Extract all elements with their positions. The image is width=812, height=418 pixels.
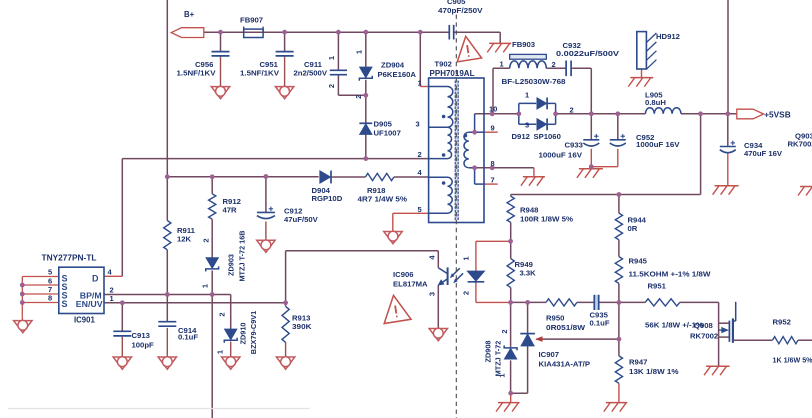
svg-text:390K: 390K — [292, 322, 312, 331]
svg-text:5: 5 — [48, 268, 52, 277]
svg-text:0.0022uF/500V: 0.0022uF/500V — [556, 49, 620, 58]
svg-text:2n2/500V: 2n2/500V — [294, 68, 328, 77]
svg-text:SP1060: SP1060 — [534, 132, 561, 141]
svg-text:1: 1 — [525, 91, 529, 100]
svg-text:10: 10 — [489, 105, 497, 114]
svg-text:R947: R947 — [629, 358, 647, 367]
svg-text:BZX79-C9V1: BZX79-C9V1 — [249, 311, 258, 354]
svg-text:1: 1 — [216, 350, 225, 354]
svg-text:1000uF 16V: 1000uF 16V — [539, 150, 583, 159]
svg-text:5: 5 — [418, 205, 422, 214]
svg-text:R945: R945 — [629, 257, 648, 266]
svg-text:P6KE160A: P6KE160A — [378, 70, 417, 79]
svg-text:D905: D905 — [374, 120, 393, 129]
svg-text:2: 2 — [327, 84, 336, 88]
svg-text:B+: B+ — [184, 10, 195, 19]
svg-text:100R 1/8W 5%: 100R 1/8W 5% — [520, 215, 573, 224]
svg-text:C933: C933 — [565, 140, 583, 149]
svg-text:RK7002: RK7002 — [690, 332, 718, 341]
svg-text:1: 1 — [418, 79, 422, 88]
svg-text:S: S — [62, 299, 68, 309]
svg-text:IC901: IC901 — [74, 316, 95, 325]
svg-text:0.1uF: 0.1uF — [178, 332, 198, 341]
svg-text:ZD903: ZD903 — [227, 254, 236, 276]
svg-text:1: 1 — [500, 60, 504, 69]
svg-text:IC907: IC907 — [539, 350, 560, 359]
svg-text:FB903: FB903 — [512, 40, 535, 49]
svg-text:MTZJ T-72: MTZJ T-72 — [494, 341, 503, 377]
svg-text:2: 2 — [500, 329, 509, 333]
svg-text:ZD904: ZD904 — [381, 61, 405, 70]
svg-text:TNY277PN-TL: TNY277PN-TL — [42, 254, 97, 263]
svg-text:D912: D912 — [512, 132, 530, 141]
svg-text:IC906: IC906 — [393, 270, 414, 279]
svg-text:12K: 12K — [177, 234, 192, 243]
svg-text:3: 3 — [428, 292, 437, 296]
svg-text:PPH7019AL: PPH7019AL — [430, 69, 475, 78]
svg-text:1: 1 — [355, 50, 364, 54]
svg-text:T902: T902 — [435, 60, 452, 69]
svg-text:4R7 1/4W 5%: 4R7 1/4W 5% — [358, 194, 408, 203]
svg-text:1.5NF/1KV: 1.5NF/1KV — [177, 69, 217, 78]
svg-text:470uF 16V: 470uF 16V — [744, 149, 783, 158]
svg-text:2: 2 — [354, 95, 363, 99]
svg-text:1: 1 — [110, 294, 114, 303]
svg-text:1.5NF/1KV: 1.5NF/1KV — [240, 69, 280, 78]
svg-text:2: 2 — [202, 238, 211, 242]
svg-text:R950: R950 — [546, 314, 564, 323]
svg-text:100pF: 100pF — [132, 341, 155, 350]
svg-text:3.3K: 3.3K — [520, 269, 537, 278]
svg-text:RK7002: RK7002 — [788, 140, 812, 149]
svg-text:3: 3 — [416, 120, 420, 129]
svg-text:EL817MA: EL817MA — [393, 280, 428, 289]
svg-text:2: 2 — [570, 106, 574, 115]
svg-text:HD912: HD912 — [656, 32, 680, 41]
svg-text:BF-L25030W-768: BF-L25030W-768 — [502, 77, 567, 86]
svg-text:1K 1/6W 5%: 1K 1/6W 5% — [773, 356, 812, 365]
svg-text:8: 8 — [491, 159, 495, 168]
svg-text:13K 1/8W 1%: 13K 1/8W 1% — [629, 367, 679, 376]
svg-text:2: 2 — [462, 291, 471, 295]
svg-text:0.1uF: 0.1uF — [590, 318, 610, 327]
svg-text:KIA431A-AT/P: KIA431A-AT/P — [539, 360, 591, 369]
svg-text:2: 2 — [418, 150, 422, 159]
svg-text:RGP10D: RGP10D — [312, 194, 343, 203]
svg-text:7: 7 — [491, 176, 495, 185]
svg-text:+5VSB: +5VSB — [764, 109, 791, 119]
svg-text:11.5KOHM +-1% 1/8W: 11.5KOHM +-1% 1/8W — [629, 269, 712, 278]
svg-text:EN/UV: EN/UV — [76, 300, 104, 309]
svg-text:2: 2 — [218, 312, 227, 316]
svg-text:470pF/250V: 470pF/250V — [438, 6, 483, 15]
svg-text:8: 8 — [48, 293, 52, 302]
svg-text:1: 1 — [201, 284, 210, 288]
svg-text:R952: R952 — [773, 318, 791, 327]
svg-text:1: 1 — [327, 56, 336, 60]
svg-text:47uF/50V: 47uF/50V — [284, 215, 319, 224]
svg-text:D: D — [92, 273, 99, 283]
svg-text:C913: C913 — [132, 331, 150, 340]
svg-text:R948: R948 — [520, 205, 539, 214]
svg-text:1: 1 — [462, 256, 471, 260]
svg-text:2: 2 — [552, 60, 556, 69]
svg-text:0R: 0R — [628, 224, 638, 233]
svg-text:Q908: Q908 — [694, 321, 714, 330]
svg-text:FB907: FB907 — [240, 16, 263, 25]
svg-text:ZD910: ZD910 — [239, 323, 248, 345]
svg-text:0R051/8W: 0R051/8W — [546, 323, 586, 332]
svg-text:47R: 47R — [223, 206, 238, 215]
svg-text:9: 9 — [491, 124, 495, 133]
svg-text:0.8uH: 0.8uH — [645, 98, 666, 107]
svg-text:UF1007: UF1007 — [374, 128, 401, 137]
svg-text:3: 3 — [525, 121, 529, 130]
svg-text:MTZJ T-72 16B: MTZJ T-72 16B — [238, 230, 247, 281]
svg-text:R951: R951 — [648, 281, 667, 290]
svg-text:1000uF 16V: 1000uF 16V — [636, 140, 680, 149]
svg-text:ZD908: ZD908 — [484, 341, 493, 363]
